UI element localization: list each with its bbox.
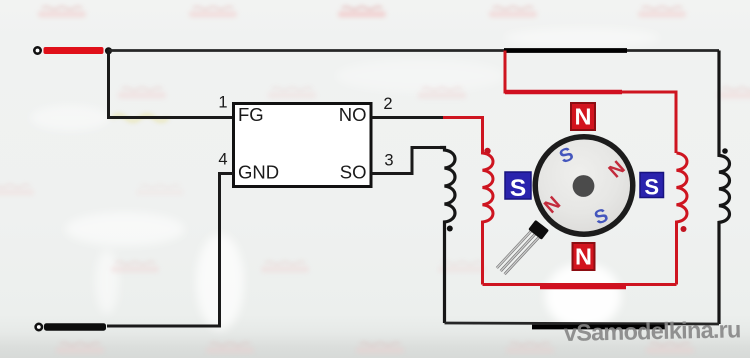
stator pole S right bbox=[640, 173, 664, 200]
stator pole N top bbox=[571, 103, 595, 130]
svg-text:2: 2 bbox=[383, 95, 392, 113]
terminal T1 (+) bbox=[34, 47, 40, 53]
black lead of T2 bbox=[44, 323, 106, 331]
wire SO pin to coil L1 bbox=[372, 148, 441, 174]
inductor L4 (right return coil, black) bbox=[719, 51, 730, 325]
wire NO pin black segment bbox=[372, 116, 444, 119]
wire red bottom thick overlay bbox=[540, 285, 626, 290]
svg-text:GND: GND bbox=[238, 162, 279, 183]
inductor L1 (sense coil, black) bbox=[440, 148, 455, 324]
polarity dot L3 bbox=[681, 226, 687, 232]
stator pole N bottom bbox=[573, 243, 595, 270]
rotor shaft dot bbox=[573, 175, 595, 197]
polarity dot L4 bbox=[722, 148, 728, 154]
svg-text:NO: NO bbox=[339, 104, 367, 125]
svg-text:FG: FG bbox=[238, 104, 264, 125]
polarity dot L1 bbox=[447, 226, 453, 232]
node dot L2 top bbox=[484, 148, 490, 154]
stator pole S left bbox=[505, 172, 531, 202]
svg-text:N: N bbox=[575, 104, 592, 130]
terminal T2 (-) bbox=[36, 324, 42, 330]
svg-text:vSamodelkina.ru: vSamodelkina.ru bbox=[564, 316, 741, 346]
IC U1 (hall sensor IC) bbox=[234, 104, 372, 187]
wire T1 to FG drop bbox=[109, 51, 234, 118]
hall sensor Q1 body bbox=[528, 220, 549, 240]
wire top rail thick overlay bbox=[504, 48, 627, 53]
wire red bottom rail bbox=[483, 283, 677, 286]
wire top rail bbox=[109, 49, 720, 52]
wire bottom rail bbox=[445, 323, 720, 324]
svg-text:1: 1 bbox=[218, 94, 227, 112]
svg-text:S: S bbox=[644, 175, 659, 200]
inductor L3 (right stator coil, red) bbox=[677, 153, 688, 285]
wire NO pin red segment to coil L2 bbox=[443, 118, 483, 152]
rotor body bbox=[538, 140, 630, 232]
wire red tap thick overlay bbox=[505, 90, 622, 95]
inductor L2 (left stator coil, red) bbox=[483, 151, 494, 285]
svg-text:S: S bbox=[510, 175, 526, 202]
junction dot J1 bbox=[105, 47, 112, 54]
svg-text:3: 3 bbox=[384, 152, 393, 170]
background erased-watermark white blobs bbox=[30, 28, 660, 330]
wire bottom rail thick overlay bbox=[532, 325, 665, 330]
red lead of T1 bbox=[44, 47, 104, 54]
hall sensor Q1 legs bbox=[497, 230, 540, 274]
wire GND pin to T2 bbox=[107, 174, 233, 327]
svg-text:N: N bbox=[575, 244, 592, 270]
svg-text:SO: SO bbox=[340, 162, 367, 183]
wire red tap from top rail to coil L3 bbox=[505, 51, 676, 154]
svg-text:4: 4 bbox=[218, 151, 227, 169]
